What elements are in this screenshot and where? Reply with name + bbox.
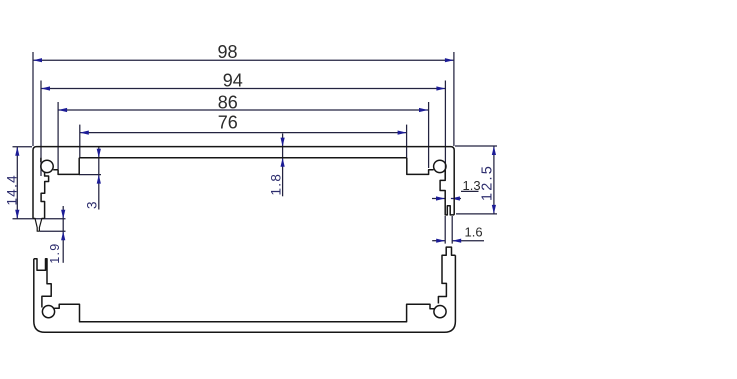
ext 86 right — [428, 102, 430, 168]
ext 1.6 left — [444, 216, 446, 244]
ext 98 right — [453, 52, 455, 146]
ext 94 right — [444, 81, 446, 180]
dim 86 line — [58, 109, 428, 111]
arrow 14.4 top — [15, 147, 19, 156]
ext 14.4/1.9 bottom wall — [13, 218, 66, 220]
arrow 86 left — [58, 108, 67, 112]
left boss circle — [41, 160, 53, 172]
svg-text:3: 3 — [85, 200, 100, 209]
right lip ledge notch — [407, 158, 434, 175]
arrow 76 left — [80, 131, 89, 135]
arrow 1.8 bottom — [281, 158, 285, 167]
arrow 1.9 bottom — [61, 231, 65, 240]
ext 3 ledge — [79, 174, 101, 176]
ext 94 left — [40, 81, 42, 177]
bottom left nub and ledge — [54, 304, 434, 322]
ext 86 left — [57, 102, 59, 169]
svg-text:76: 76 — [218, 113, 238, 133]
arrow 98 right — [445, 58, 454, 62]
left boss tail — [41, 172, 49, 218]
arrow 86 right — [419, 108, 428, 112]
dim 1.6 line left — [432, 240, 445, 242]
arrow 1.3 right — [451, 196, 460, 200]
arrow 1.6 left — [436, 239, 445, 243]
dim 1.3 line right — [451, 198, 461, 200]
bottom shell outline — [34, 259, 51, 308]
bottom right boss circle — [434, 306, 446, 318]
left wall bottom with spike — [33, 218, 45, 231]
dim 1.9 line — [62, 206, 64, 263]
bottom left boss circle — [42, 306, 54, 318]
arrow 3 bottom — [97, 175, 101, 184]
dim 94 line — [41, 88, 445, 90]
ext 98 left — [32, 52, 34, 146]
dim 1.6 line right — [452, 240, 484, 242]
dim 1.3 text underline — [461, 190, 479, 192]
svg-text:1.8: 1.8 — [268, 173, 283, 196]
arrow 98 left — [33, 58, 42, 62]
svg-text:12.5: 12.5 — [479, 164, 495, 201]
ext 14.4 top — [13, 146, 33, 148]
top plate inner surface — [79, 157, 407, 159]
svg-text:1.3: 1.3 — [463, 178, 481, 193]
ext 76 right — [406, 125, 408, 158]
svg-text:14.4: 14.4 — [5, 174, 20, 205]
bottom left outer and bottom — [34, 255, 456, 332]
arrow 14.4 bottom — [15, 210, 19, 219]
ext 1.9 lower — [40, 230, 66, 232]
ext 12.5 top — [455, 145, 497, 147]
svg-text:94: 94 — [223, 71, 243, 91]
left lip ledge notch — [53, 158, 79, 175]
left wall inner stub — [40, 158, 42, 162]
arrow 3 top — [97, 149, 101, 158]
arrow 94 right — [436, 86, 445, 90]
dim 1.3 line left — [432, 198, 445, 200]
bottom right tail tower — [438, 247, 455, 303]
dim 14.4 line — [16, 147, 18, 219]
arrow 1.6 right — [452, 239, 461, 243]
dim 3 line — [98, 146, 100, 210]
arrow 1.9 top — [61, 210, 65, 219]
arrow 94 left — [41, 86, 50, 90]
dim 76 line — [80, 132, 407, 134]
ext 12.5 bottom — [456, 213, 497, 215]
dim 98 line — [33, 59, 454, 61]
right boss circle — [434, 160, 446, 172]
svg-text:1.6: 1.6 — [465, 225, 483, 240]
arrow 76 right — [398, 131, 407, 135]
arrow 1.3 left — [436, 196, 445, 200]
top shell outer — [33, 147, 454, 219]
svg-text:98: 98 — [218, 42, 238, 62]
svg-text:86: 86 — [218, 92, 238, 112]
ext 76 left — [79, 125, 81, 158]
dim 1.8 line — [282, 134, 284, 197]
arrow 12.5 bottom — [492, 205, 496, 214]
top shell right port — [440, 170, 454, 215]
ext 1.6 right — [451, 216, 453, 244]
dim 12.5 line — [493, 146, 495, 214]
svg-text:1.9: 1.9 — [48, 243, 62, 264]
arrow 12.5 top — [492, 146, 496, 155]
arrow 1.8 top — [281, 138, 285, 147]
